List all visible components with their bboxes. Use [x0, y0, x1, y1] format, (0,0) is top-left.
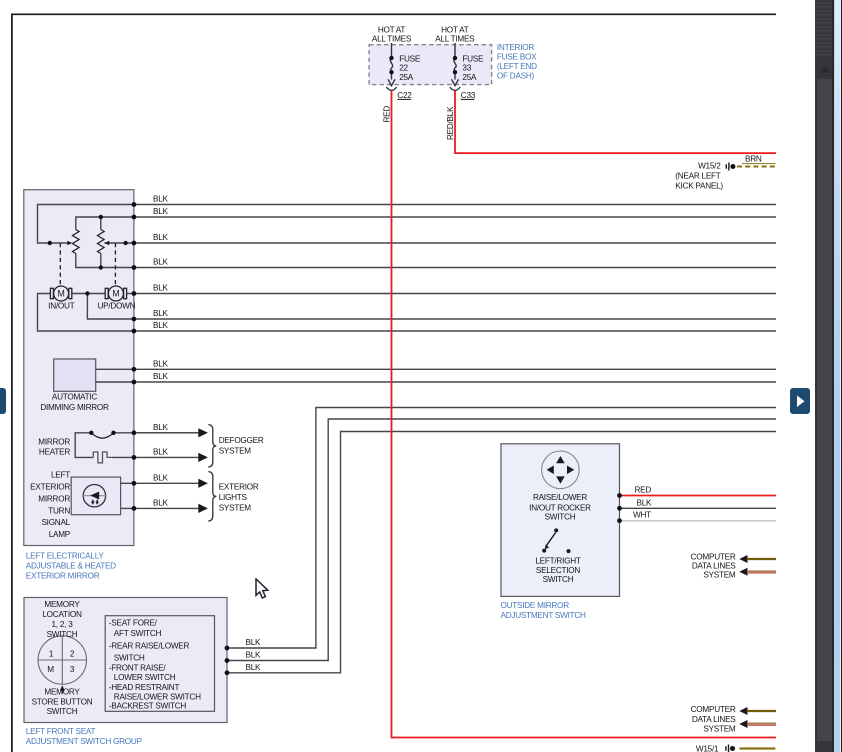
svg-text:AFT SWITCH: AFT SWITCH: [114, 629, 162, 638]
svg-text:1, 2, 3: 1, 2, 3: [51, 620, 73, 629]
svg-text:3: 3: [70, 665, 75, 674]
svg-text:SWITCH: SWITCH: [543, 575, 574, 584]
svg-text:COMPUTER: COMPUTER: [691, 705, 736, 714]
svg-text:MEMORY: MEMORY: [44, 687, 80, 696]
svg-text:HEATER: HEATER: [39, 448, 70, 457]
svg-text:BLK: BLK: [153, 284, 169, 293]
svg-text:BRN: BRN: [745, 155, 762, 164]
svg-text:33: 33: [462, 64, 471, 73]
svg-text:C33: C33: [461, 91, 476, 100]
svg-text:MIRROR: MIRROR: [38, 437, 70, 446]
svg-text:BLK: BLK: [153, 233, 169, 242]
svg-text:LEFT FRONT SEAT: LEFT FRONT SEAT: [26, 727, 96, 736]
svg-text:SWITCH: SWITCH: [47, 707, 78, 716]
svg-text:SYSTEM: SYSTEM: [219, 446, 252, 455]
svg-text:BLK: BLK: [153, 359, 169, 368]
svg-text:HOT AT: HOT AT: [378, 25, 406, 34]
svg-text:M: M: [112, 289, 119, 299]
svg-text:ADJUSTMENT SWITCH: ADJUSTMENT SWITCH: [501, 611, 587, 620]
svg-text:MIRROR: MIRROR: [38, 495, 70, 504]
svg-text:HOT AT: HOT AT: [441, 25, 469, 34]
svg-text:-FRONT RAISE/: -FRONT RAISE/: [109, 664, 167, 673]
svg-text:MEMORY: MEMORY: [44, 600, 80, 609]
svg-text:IN/OUT ROCKER: IN/OUT ROCKER: [529, 504, 591, 513]
svg-text:SELECTION: SELECTION: [536, 566, 580, 575]
svg-text:BLK: BLK: [246, 663, 262, 672]
svg-text:ADJUSTMENT SWITCH GROUP: ADJUSTMENT SWITCH GROUP: [26, 737, 143, 746]
svg-text:BLK: BLK: [153, 498, 169, 507]
svg-text:M: M: [47, 665, 54, 674]
svg-text:W15/1: W15/1: [696, 744, 719, 752]
svg-text:BLK: BLK: [246, 651, 262, 660]
svg-text:DATA LINES: DATA LINES: [692, 715, 736, 724]
svg-text:AUTOMATIC: AUTOMATIC: [52, 393, 98, 402]
svg-text:SWITCH: SWITCH: [545, 513, 576, 522]
svg-text:BLK: BLK: [153, 447, 169, 456]
svg-text:RED: RED: [382, 106, 391, 123]
svg-text:BLK: BLK: [153, 321, 169, 330]
svg-text:-SEAT FORE/: -SEAT FORE/: [109, 619, 158, 628]
svg-text:LAMP: LAMP: [49, 530, 71, 539]
svg-text:22: 22: [399, 64, 408, 73]
svg-text:EXTERIOR: EXTERIOR: [30, 483, 70, 492]
svg-text:BLK: BLK: [153, 207, 169, 216]
svg-text:BLK: BLK: [153, 372, 169, 381]
svg-text:2: 2: [70, 650, 75, 659]
svg-text:RED/BLK: RED/BLK: [446, 106, 455, 140]
svg-text:-REAR RAISE/LOWER: -REAR RAISE/LOWER: [109, 642, 190, 651]
svg-text:RED: RED: [635, 486, 652, 495]
svg-text:ADJUSTABLE & HEATED: ADJUSTABLE & HEATED: [26, 562, 116, 571]
svg-text:RAISE/LOWER SWITCH: RAISE/LOWER SWITCH: [114, 692, 201, 701]
svg-text:DIMMING MIRROR: DIMMING MIRROR: [40, 403, 109, 412]
svg-text:BLK: BLK: [246, 638, 262, 647]
svg-text:LEFT ELECTRICALLY: LEFT ELECTRICALLY: [26, 551, 105, 560]
svg-text:-HEAD RESTRAINT: -HEAD RESTRAINT: [109, 683, 180, 692]
svg-text:SYSTEM: SYSTEM: [219, 503, 252, 512]
svg-text:INTERIOR: INTERIOR: [497, 43, 534, 52]
svg-text:BLK: BLK: [153, 258, 169, 267]
svg-text:DATA LINES: DATA LINES: [692, 562, 736, 571]
svg-text:IN/OUT: IN/OUT: [48, 302, 74, 311]
svg-text:BLK: BLK: [153, 195, 169, 204]
svg-text:STORE BUTTON: STORE BUTTON: [32, 697, 93, 706]
svg-text:UP/DOWN: UP/DOWN: [97, 302, 135, 311]
svg-text:SWITCH: SWITCH: [47, 630, 78, 639]
svg-text:BLK: BLK: [637, 498, 653, 507]
svg-text:25A: 25A: [399, 73, 414, 82]
svg-text:DEFOGGER: DEFOGGER: [219, 436, 264, 445]
svg-text:25A: 25A: [462, 73, 477, 82]
svg-text:BLK: BLK: [153, 473, 169, 482]
svg-text:FUSE: FUSE: [462, 54, 484, 63]
svg-text:BLK: BLK: [153, 423, 169, 432]
svg-text:M: M: [58, 289, 65, 299]
svg-text:FUSE BOX: FUSE BOX: [497, 52, 537, 61]
svg-text:LIGHTS: LIGHTS: [219, 493, 248, 502]
svg-text:ALL TIMES: ALL TIMES: [372, 35, 412, 44]
svg-text:OF DASH): OF DASH): [497, 72, 535, 81]
svg-text:C22: C22: [397, 91, 412, 100]
svg-text:ALL TIMES: ALL TIMES: [435, 35, 475, 44]
svg-text:BLK: BLK: [153, 309, 169, 318]
svg-text:FUSE: FUSE: [399, 54, 421, 63]
svg-text:1: 1: [49, 650, 54, 659]
svg-text:SYSTEM: SYSTEM: [703, 725, 736, 734]
svg-text:LOCATION: LOCATION: [42, 610, 82, 619]
svg-text:EXTERIOR MIRROR: EXTERIOR MIRROR: [26, 572, 100, 581]
svg-text:EXTERIOR: EXTERIOR: [219, 483, 259, 492]
svg-text:SIGNAL: SIGNAL: [41, 518, 70, 527]
svg-text:TURN: TURN: [48, 506, 70, 515]
svg-text:W15/2: W15/2: [698, 162, 721, 171]
svg-text:RAISE/LOWER: RAISE/LOWER: [533, 493, 587, 502]
svg-text:(NEAR LEFT: (NEAR LEFT: [675, 171, 721, 180]
svg-text:OUTSIDE MIRROR: OUTSIDE MIRROR: [501, 601, 570, 610]
svg-text:LEFT/RIGHT: LEFT/RIGHT: [535, 557, 581, 566]
svg-text:-BACKREST SWITCH: -BACKREST SWITCH: [109, 702, 187, 711]
svg-text:SYSTEM: SYSTEM: [703, 571, 736, 580]
svg-text:KICK PANEL): KICK PANEL): [675, 181, 723, 190]
svg-text:WHT: WHT: [633, 511, 651, 520]
svg-text:(LEFT END: (LEFT END: [497, 62, 537, 71]
svg-text:COMPUTER: COMPUTER: [691, 553, 736, 562]
svg-text:SWITCH: SWITCH: [114, 654, 145, 663]
svg-text:LEFT: LEFT: [51, 471, 70, 480]
svg-text:LOWER SWITCH: LOWER SWITCH: [114, 673, 176, 682]
